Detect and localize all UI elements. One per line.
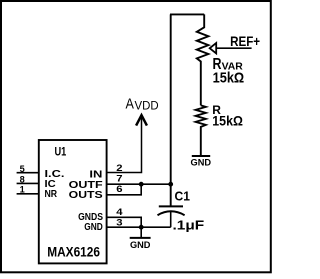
wire C1 bottom lead xyxy=(170,211,172,227)
svg-text:GND: GND xyxy=(130,239,151,250)
svg-text:MAX6126: MAX6126 xyxy=(47,244,100,259)
wire pin 2 (IN) to AVDD riser xyxy=(107,116,142,173)
wire pin 5 stub xyxy=(17,172,39,174)
wire pin 4 (GNDS) drop to pin 3 xyxy=(107,217,142,227)
wire wiper to REF+ xyxy=(216,47,251,49)
svg-text:U1: U1 xyxy=(55,144,67,158)
junction dot GNDS/GND xyxy=(139,225,144,230)
ground symbol bar (right, under R) xyxy=(192,155,210,157)
wire pin 8 stub xyxy=(17,182,39,184)
potentiometer wiper arrow xyxy=(210,43,217,53)
potentiometer RVAR zigzag with leads xyxy=(197,14,209,105)
svg-text:OUTS: OUTS xyxy=(69,190,103,201)
resistor R zigzag with leads xyxy=(196,105,206,155)
svg-text:4: 4 xyxy=(116,207,123,217)
svg-text:C1: C1 xyxy=(175,188,190,203)
svg-text:VDD: VDD xyxy=(135,98,159,112)
IC U1 MAX6126 body xyxy=(39,140,107,263)
wire main vertical net OUTF to divider and C1 xyxy=(170,14,172,206)
svg-text:2: 2 xyxy=(116,163,122,173)
wire top horizontal to potentiometer xyxy=(170,13,204,15)
wire pin 7 (OUTF) xyxy=(107,183,171,185)
svg-text:15kΩ: 15kΩ xyxy=(212,113,243,129)
wire pin 3 (GND) to capacitor C1 bottom xyxy=(107,226,171,228)
wire ground stub at pin 3 junction xyxy=(140,227,142,237)
svg-text:GND: GND xyxy=(191,157,212,168)
capacitor C1 top plate xyxy=(159,205,183,207)
wire pin 6 (OUTS) riser to pin 7 xyxy=(107,184,142,195)
svg-text:3: 3 xyxy=(116,217,122,227)
capacitor C1 curved bottom plate xyxy=(158,211,185,215)
svg-text:NR: NR xyxy=(45,189,58,200)
svg-text:6: 6 xyxy=(116,184,122,194)
junction dot OUTF/OUTS xyxy=(139,182,144,187)
svg-text:1: 1 xyxy=(20,185,25,195)
junction dot OUTF to divider net xyxy=(168,182,173,187)
wire pin 1 stub xyxy=(17,193,39,195)
svg-text:7: 7 xyxy=(116,174,122,184)
svg-text:A: A xyxy=(126,96,134,113)
svg-text:GND: GND xyxy=(84,222,103,233)
svg-text:8: 8 xyxy=(20,174,25,184)
svg-text:REF+: REF+ xyxy=(230,33,260,49)
svg-text:.1μF: .1μF xyxy=(173,217,205,232)
svg-text:IN: IN xyxy=(89,169,102,180)
power arrow AVDD arrowhead xyxy=(136,115,147,125)
svg-text:5: 5 xyxy=(20,164,25,174)
svg-text:15kΩ: 15kΩ xyxy=(213,70,245,87)
ground symbol bar (bottom) xyxy=(130,237,151,239)
